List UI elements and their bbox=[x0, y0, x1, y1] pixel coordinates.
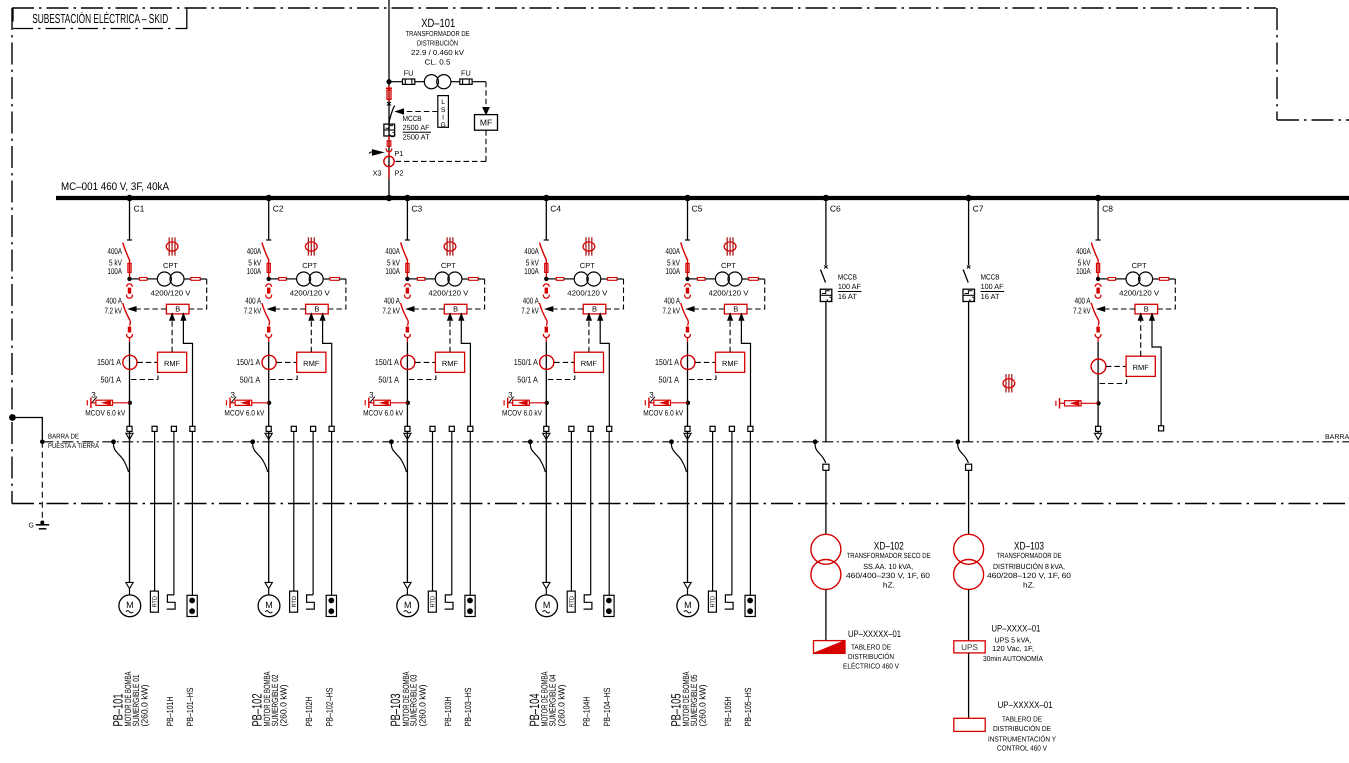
svg-text:hZ.: hZ. bbox=[883, 580, 895, 589]
svg-text:100A: 100A bbox=[1076, 266, 1091, 276]
svg-text:UPS 5 kVA,: UPS 5 kVA, bbox=[995, 635, 1032, 644]
svg-text:INSTRUMENTACIÓN Y: INSTRUMENTACIÓN Y bbox=[988, 734, 1056, 743]
svg-text:460/208–120 V, 1F, 60: 460/208–120 V, 1F, 60 bbox=[987, 571, 1071, 580]
svg-text:100 AF: 100 AF bbox=[838, 282, 861, 291]
svg-text:CL. 0.5: CL. 0.5 bbox=[425, 58, 451, 67]
svg-text:UP–XXXX–01: UP–XXXX–01 bbox=[991, 624, 1040, 635]
svg-text:DISTRIBUCIÓN 8 kVA,: DISTRIBUCIÓN 8 kVA, bbox=[993, 562, 1065, 571]
svg-text:TRANSFORMADOR DE: TRANSFORMADOR DE bbox=[406, 29, 470, 38]
svg-text:4200/120 V: 4200/120 V bbox=[1119, 289, 1159, 298]
svg-text:B: B bbox=[1144, 305, 1149, 314]
svg-text:hZ.: hZ. bbox=[1023, 580, 1035, 589]
svg-text:G: G bbox=[29, 523, 34, 530]
svg-text:MC–001 460 V, 3F, 40kA: MC–001 460 V, 3F, 40kA bbox=[61, 181, 170, 193]
svg-text:XD–101: XD–101 bbox=[421, 16, 455, 30]
svg-text:BARRA: BARRA bbox=[1325, 434, 1349, 441]
svg-text:G: G bbox=[440, 122, 445, 129]
svg-text:MCOV 6.0 kV: MCOV 6.0 kV bbox=[502, 409, 543, 418]
svg-text:16 AT: 16 AT bbox=[838, 292, 857, 301]
svg-text:UP–XXXXX–01: UP–XXXXX–01 bbox=[848, 629, 901, 640]
svg-text:RMF: RMF bbox=[1133, 363, 1150, 372]
svg-text:(260.0 kW): (260.0 kW) bbox=[698, 685, 708, 727]
svg-text:100 AF: 100 AF bbox=[981, 282, 1004, 291]
svg-text:PB–102H: PB–102H bbox=[304, 697, 314, 727]
svg-text:PB–105–HS: PB–105–HS bbox=[743, 688, 753, 727]
svg-text:MCCB: MCCB bbox=[981, 273, 1000, 282]
svg-text:PB–101H: PB–101H bbox=[165, 697, 175, 727]
svg-text:FU: FU bbox=[404, 69, 414, 78]
svg-text:C6: C6 bbox=[830, 204, 841, 214]
svg-text:C2: C2 bbox=[273, 204, 284, 214]
svg-text:TRANSFORMADOR SECO DE: TRANSFORMADOR SECO DE bbox=[847, 551, 931, 560]
svg-text:22.9 / 0.460 kV: 22.9 / 0.460 kV bbox=[411, 48, 464, 57]
svg-text:50/1 A: 50/1 A bbox=[517, 375, 538, 385]
svg-text:PB–105H: PB–105H bbox=[723, 697, 733, 727]
svg-text:C5: C5 bbox=[692, 204, 703, 214]
svg-text:S: S bbox=[441, 107, 446, 114]
svg-text:C7: C7 bbox=[973, 204, 984, 214]
svg-text:2500 AT: 2500 AT bbox=[403, 133, 430, 142]
svg-text:30min AUTONOMÍA: 30min AUTONOMÍA bbox=[983, 654, 1043, 663]
svg-text:MF: MF bbox=[480, 118, 492, 128]
svg-text:L: L bbox=[441, 99, 445, 106]
svg-text:UP–XXXXX–01: UP–XXXXX–01 bbox=[998, 700, 1053, 711]
svg-text:PB–102–HS: PB–102–HS bbox=[324, 688, 334, 727]
svg-text:DISTRIBUCIÓN: DISTRIBUCIÓN bbox=[417, 38, 458, 47]
svg-text:BARRA DE: BARRA DE bbox=[48, 434, 79, 441]
svg-text:P1: P1 bbox=[395, 149, 404, 158]
svg-text:150/1 A: 150/1 A bbox=[514, 357, 538, 367]
svg-text:SS.AA. 10 kVA,: SS.AA. 10 kVA, bbox=[863, 562, 913, 571]
svg-text:400 A: 400 A bbox=[1075, 296, 1091, 306]
svg-text:C1: C1 bbox=[134, 204, 145, 214]
svg-text:150/1 A: 150/1 A bbox=[97, 357, 121, 367]
svg-text:MCOV 6.0 kV: MCOV 6.0 kV bbox=[224, 409, 265, 418]
svg-text:MCOV 6.0 kV: MCOV 6.0 kV bbox=[85, 409, 126, 418]
svg-text:PUESTA A TIERRA: PUESTA A TIERRA bbox=[48, 443, 99, 450]
svg-text:(260.0 kW): (260.0 kW) bbox=[279, 685, 289, 727]
svg-text:MCCB: MCCB bbox=[403, 114, 422, 123]
svg-text:MCCB: MCCB bbox=[838, 273, 857, 282]
svg-text:ELÉCTRICO 460 V: ELÉCTRICO 460 V bbox=[843, 662, 899, 671]
svg-text:120 Vac, 1F,: 120 Vac, 1F, bbox=[992, 644, 1034, 653]
svg-text:(260.0 kW): (260.0 kW) bbox=[556, 685, 566, 727]
svg-text:C4: C4 bbox=[550, 204, 561, 214]
svg-text:50/1 A: 50/1 A bbox=[240, 375, 261, 385]
svg-text:TABLERO DE: TABLERO DE bbox=[851, 643, 891, 652]
svg-text:DISTRIBUCIÓN DE: DISTRIBUCIÓN DE bbox=[993, 724, 1051, 733]
svg-text:TABLERO DE: TABLERO DE bbox=[1002, 715, 1042, 724]
svg-text:TRANSFORMADOR DE: TRANSFORMADOR DE bbox=[997, 551, 1062, 560]
svg-text:150/1 A: 150/1 A bbox=[236, 357, 260, 367]
svg-text:460/400–230 V, 1F, 60: 460/400–230 V, 1F, 60 bbox=[846, 571, 930, 580]
svg-text:(260.0 kW): (260.0 kW) bbox=[417, 685, 427, 727]
svg-text:CONTROL 460 V: CONTROL 460 V bbox=[997, 743, 1047, 752]
svg-text:MCOV 6.0 kV: MCOV 6.0 kV bbox=[363, 409, 404, 418]
svg-text:PB–104H: PB–104H bbox=[582, 697, 592, 727]
svg-text:PB–101–HS: PB–101–HS bbox=[185, 688, 195, 727]
svg-text:FU: FU bbox=[461, 69, 471, 78]
svg-text:(260.0 kW): (260.0 kW) bbox=[139, 685, 149, 727]
svg-text:C8: C8 bbox=[1102, 204, 1113, 214]
svg-text:PB–104–HS: PB–104–HS bbox=[602, 688, 612, 727]
svg-text:50/1 A: 50/1 A bbox=[378, 375, 399, 385]
svg-text:150/1 A: 150/1 A bbox=[655, 357, 679, 367]
svg-text:X3: X3 bbox=[373, 169, 382, 178]
svg-text:DISTRIBUCIÓN: DISTRIBUCIÓN bbox=[848, 652, 894, 661]
svg-text:150/1 A: 150/1 A bbox=[375, 357, 399, 367]
svg-text:50/1 A: 50/1 A bbox=[659, 375, 680, 385]
svg-text:C3: C3 bbox=[411, 204, 422, 214]
svg-text:PB–103H: PB–103H bbox=[443, 697, 453, 727]
svg-text:CPT: CPT bbox=[1132, 261, 1148, 270]
svg-text:2500 AF: 2500 AF bbox=[403, 123, 430, 132]
svg-text:PB–103–HS: PB–103–HS bbox=[463, 688, 473, 727]
svg-text:MCOV 6.0 kV: MCOV 6.0 kV bbox=[643, 409, 684, 418]
svg-text:UPS: UPS bbox=[961, 643, 978, 652]
svg-text:I: I bbox=[442, 114, 444, 121]
svg-text:P2: P2 bbox=[395, 169, 404, 178]
svg-text:SUBESTACIÓN ELÉCTRICA – SKID: SUBESTACIÓN ELÉCTRICA – SKID bbox=[32, 11, 168, 26]
svg-text:50/1 A: 50/1 A bbox=[101, 375, 122, 385]
svg-text:400A: 400A bbox=[1076, 246, 1091, 256]
svg-text:16 AT: 16 AT bbox=[981, 292, 1000, 301]
svg-text:7.2 kV: 7.2 kV bbox=[1073, 306, 1091, 316]
